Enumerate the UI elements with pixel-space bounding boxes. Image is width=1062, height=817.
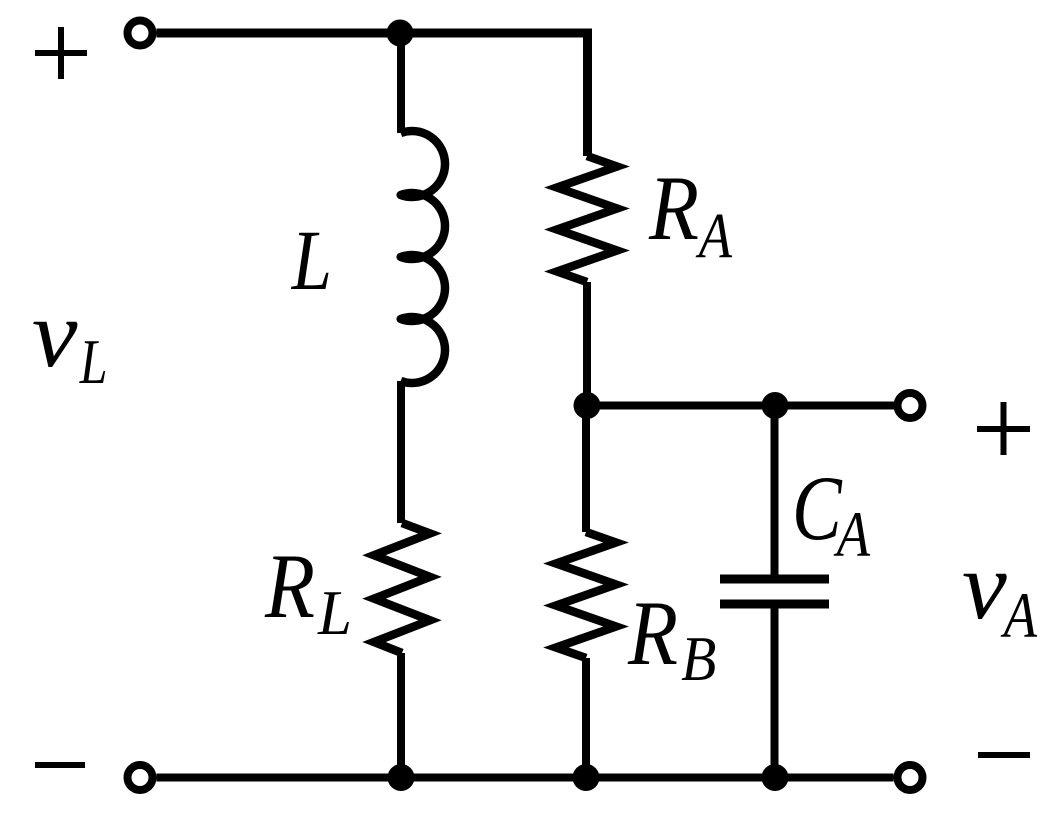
wire: node C down to C_A bbox=[771, 406, 779, 576]
svg-text:R: R bbox=[648, 157, 699, 259]
wire mid: node B to terminal T2 bbox=[587, 402, 894, 410]
label v_A bbox=[962, 533, 1037, 651]
wire bottom: T3 to T4 bbox=[157, 774, 894, 782]
svg-text:B: B bbox=[681, 624, 716, 694]
resistor R_B bbox=[556, 532, 616, 658]
wire: R_B to bottom node E bbox=[582, 658, 590, 778]
svg-text:v: v bbox=[962, 533, 1007, 639]
wire: node A down to inductor bbox=[397, 29, 405, 133]
wire top: node A to corner, down to R_A bbox=[400, 33, 588, 156]
terminal T2 mid-right bbox=[898, 393, 923, 418]
label R_A bbox=[648, 157, 732, 272]
resistor R_L bbox=[374, 523, 430, 653]
label R_L bbox=[264, 535, 352, 649]
svg-text:L: L bbox=[291, 213, 332, 308]
svg-text:L: L bbox=[317, 577, 352, 649]
label R_B bbox=[627, 582, 716, 695]
wire: C_A to bottom node F bbox=[771, 608, 779, 778]
label - bottom-left bbox=[35, 762, 85, 768]
label + top-left bbox=[35, 27, 87, 79]
svg-text:A: A bbox=[695, 200, 732, 271]
label C_A bbox=[792, 458, 870, 570]
svg-text:A: A bbox=[1000, 580, 1037, 651]
node D bottom junction bbox=[388, 764, 415, 791]
label - bottom-right bbox=[978, 752, 1030, 758]
node E bottom junction bbox=[573, 764, 600, 791]
wire top: T1 to node A bbox=[157, 29, 401, 38]
terminal T4 bottom-right bbox=[898, 765, 923, 790]
svg-text:v: v bbox=[32, 280, 78, 387]
svg-text:A: A bbox=[833, 499, 870, 570]
node F bottom junction bbox=[762, 764, 789, 791]
svg-text:L: L bbox=[79, 327, 108, 397]
wire: R_L to bottom node D bbox=[397, 653, 405, 778]
svg-text:R: R bbox=[627, 582, 678, 684]
wire: node B down to R_B bbox=[582, 406, 590, 533]
wire: inductor to R_L bbox=[397, 381, 405, 523]
capacitor C_A bbox=[720, 579, 829, 604]
label v_L bbox=[32, 280, 108, 397]
label + mid-right bbox=[977, 402, 1030, 455]
node B mid junction bbox=[574, 392, 601, 419]
terminal T1 top-left bbox=[128, 21, 153, 46]
svg-text:R: R bbox=[264, 535, 315, 637]
terminal T3 bottom-left bbox=[128, 765, 153, 790]
wire: R_A to node B bbox=[583, 282, 591, 406]
resistor R_A bbox=[557, 156, 617, 282]
svg-text:C: C bbox=[792, 458, 843, 560]
node A top junction bbox=[387, 20, 414, 47]
node C cap-top junction bbox=[762, 392, 789, 419]
inductor L coil bbox=[401, 131, 445, 383]
